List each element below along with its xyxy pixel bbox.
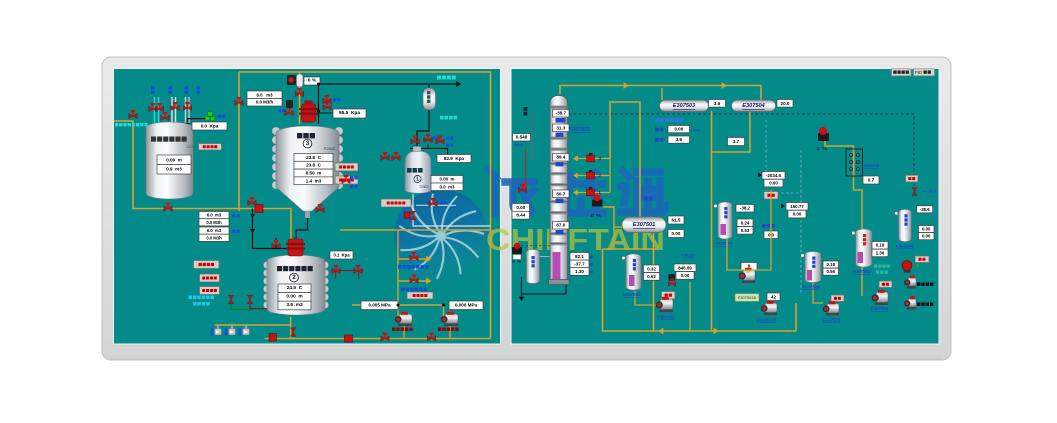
svg-text:PID: PID (915, 70, 922, 75)
svg-text:0.00: 0.00 (769, 181, 778, 186)
svg-text:R2403: R2403 (324, 147, 335, 151)
svg-text:0.0 M3h: 0.0 M3h (206, 235, 222, 240)
svg-text:3.6: 3.6 (714, 101, 721, 106)
svg-text:0.56: 0.56 (827, 269, 836, 274)
svg-text:-38.6: -38.6 (920, 207, 930, 212)
svg-text:V307503: V307503 (853, 269, 871, 274)
svg-text:0.005 MPa: 0.005 MPa (368, 303, 391, 308)
svg-text:0 %: 0 % (308, 78, 317, 84)
svg-text:95.5 Kpa: 95.5 Kpa (339, 110, 360, 116)
svg-text:82.1: 82.1 (575, 254, 584, 259)
svg-text:F30125: F30125 (681, 253, 695, 258)
svg-text:-2034.6: -2034.6 (766, 173, 781, 178)
svg-text:T2403: T2403 (419, 185, 429, 189)
svg-text:0 %: 0 % (591, 213, 601, 219)
svg-text:E307504: E307504 (742, 103, 765, 109)
svg-text:1: 1 (416, 176, 419, 182)
svg-text:V307504: V307504 (802, 285, 820, 290)
svg-text:42: 42 (771, 294, 776, 299)
svg-text:12202: 12202 (186, 145, 196, 149)
svg-text:0.00: 0.00 (516, 205, 525, 210)
svg-text:0 %: 0 % (817, 146, 827, 152)
svg-text:6.0 m3: 6.0 m3 (256, 92, 273, 97)
svg-text:T307501: T307501 (569, 127, 590, 133)
svg-text:6.44: 6.44 (516, 213, 525, 218)
svg-text:89.4: 89.4 (556, 155, 565, 160)
svg-text:3.7: 3.7 (733, 139, 740, 144)
svg-text:0.00: 0.00 (674, 127, 683, 132)
svg-text:0.0 M3/h: 0.0 M3/h (256, 100, 274, 105)
svg-text:0.18: 0.18 (827, 262, 836, 267)
svg-text:E307503: E307503 (673, 103, 696, 109)
svg-text:V307505: V307505 (896, 244, 914, 249)
svg-text:C: C (692, 138, 695, 143)
svg-text:F307503: F307503 (823, 318, 841, 323)
svg-text:MPa: MPa (514, 143, 523, 148)
svg-text:1: 1 (599, 190, 602, 195)
svg-text:24.5 C: 24.5 C (287, 285, 303, 291)
svg-text:0.18: 0.18 (876, 243, 885, 248)
svg-text:61.5: 61.5 (672, 218, 681, 223)
svg-text:1.4 m3: 1.4 m3 (306, 178, 322, 183)
svg-text:F307504: F307504 (871, 306, 889, 311)
svg-text:m3/h: m3/h (691, 128, 701, 133)
svg-text:150.77: 150.77 (790, 204, 804, 209)
svg-text:67.0: 67.0 (556, 223, 565, 228)
svg-text:0 %: 0 % (512, 259, 521, 264)
svg-text:0.548: 0.548 (516, 135, 528, 140)
svg-text:0.00: 0.00 (681, 273, 690, 278)
svg-text:1.36: 1.36 (876, 250, 885, 255)
svg-text:23.8 C: 23.8 C (306, 163, 321, 168)
svg-text:-38.2: -38.2 (740, 206, 751, 211)
svg-text:0.0 m3: 0.0 m3 (440, 184, 455, 189)
svg-text:E30705: E30705 (864, 163, 880, 168)
svg-text:0.00: 0.00 (672, 231, 681, 236)
svg-text:0.0 Kpa: 0.0 Kpa (201, 124, 219, 129)
svg-text:F307501B: F307501B (738, 295, 757, 300)
svg-text:6.0 m3: 6.0 m3 (207, 213, 222, 218)
svg-text:3: 3 (599, 156, 602, 161)
svg-text:0.32: 0.32 (647, 266, 656, 271)
svg-text:82.9 Kpa: 82.9 Kpa (444, 156, 465, 161)
svg-text:0.00 m: 0.00 m (440, 177, 455, 182)
svg-text:31.3: 31.3 (556, 125, 565, 130)
svg-text:0.1 Kpa: 0.1 Kpa (333, 253, 350, 258)
svg-text:3.8: 3.8 (676, 137, 683, 142)
svg-text:6.0 m3: 6.0 m3 (207, 228, 222, 233)
svg-text:0.0 M3h: 0.0 M3h (206, 220, 222, 225)
svg-text:E307501: E307501 (633, 222, 655, 228)
svg-text:3.6 m3: 3.6 m3 (286, 302, 303, 308)
svg-text:0.00: 0.00 (922, 227, 931, 232)
svg-text:20.0: 20.0 (781, 101, 790, 106)
svg-text:0.24: 0.24 (741, 220, 750, 225)
svg-text:23.8 C: 23.8 C (306, 155, 321, 160)
svg-text:-38.7: -38.7 (556, 111, 567, 116)
svg-text:60.7: 60.7 (556, 191, 565, 196)
svg-text:846.09: 846.09 (678, 265, 692, 270)
svg-text:2: 2 (599, 173, 602, 178)
svg-text:0.62: 0.62 (647, 274, 656, 279)
svg-text:0.7: 0.7 (868, 178, 875, 183)
svg-text:0.9 m3: 0.9 m3 (166, 167, 182, 172)
svg-text:0.00: 0.00 (922, 234, 931, 239)
svg-text:V307502: V307502 (623, 292, 641, 297)
svg-text:0.00 m: 0.00 m (286, 293, 302, 299)
svg-text:F307502: F307502 (657, 315, 675, 320)
svg-text:0.53: 0.53 (741, 228, 750, 233)
svg-text:V307501: V307501 (715, 241, 733, 246)
svg-text:0.00: 0.00 (793, 212, 802, 217)
svg-text:F3075018: F3075018 (757, 318, 777, 323)
svg-text:-37.7: -37.7 (574, 261, 585, 266)
svg-text:0.000 MPa: 0.000 MPa (455, 303, 478, 308)
svg-text:0.00 m: 0.00 m (166, 157, 182, 162)
svg-text:0.50 m: 0.50 m (306, 171, 322, 176)
svg-text:1.30: 1.30 (575, 269, 584, 274)
